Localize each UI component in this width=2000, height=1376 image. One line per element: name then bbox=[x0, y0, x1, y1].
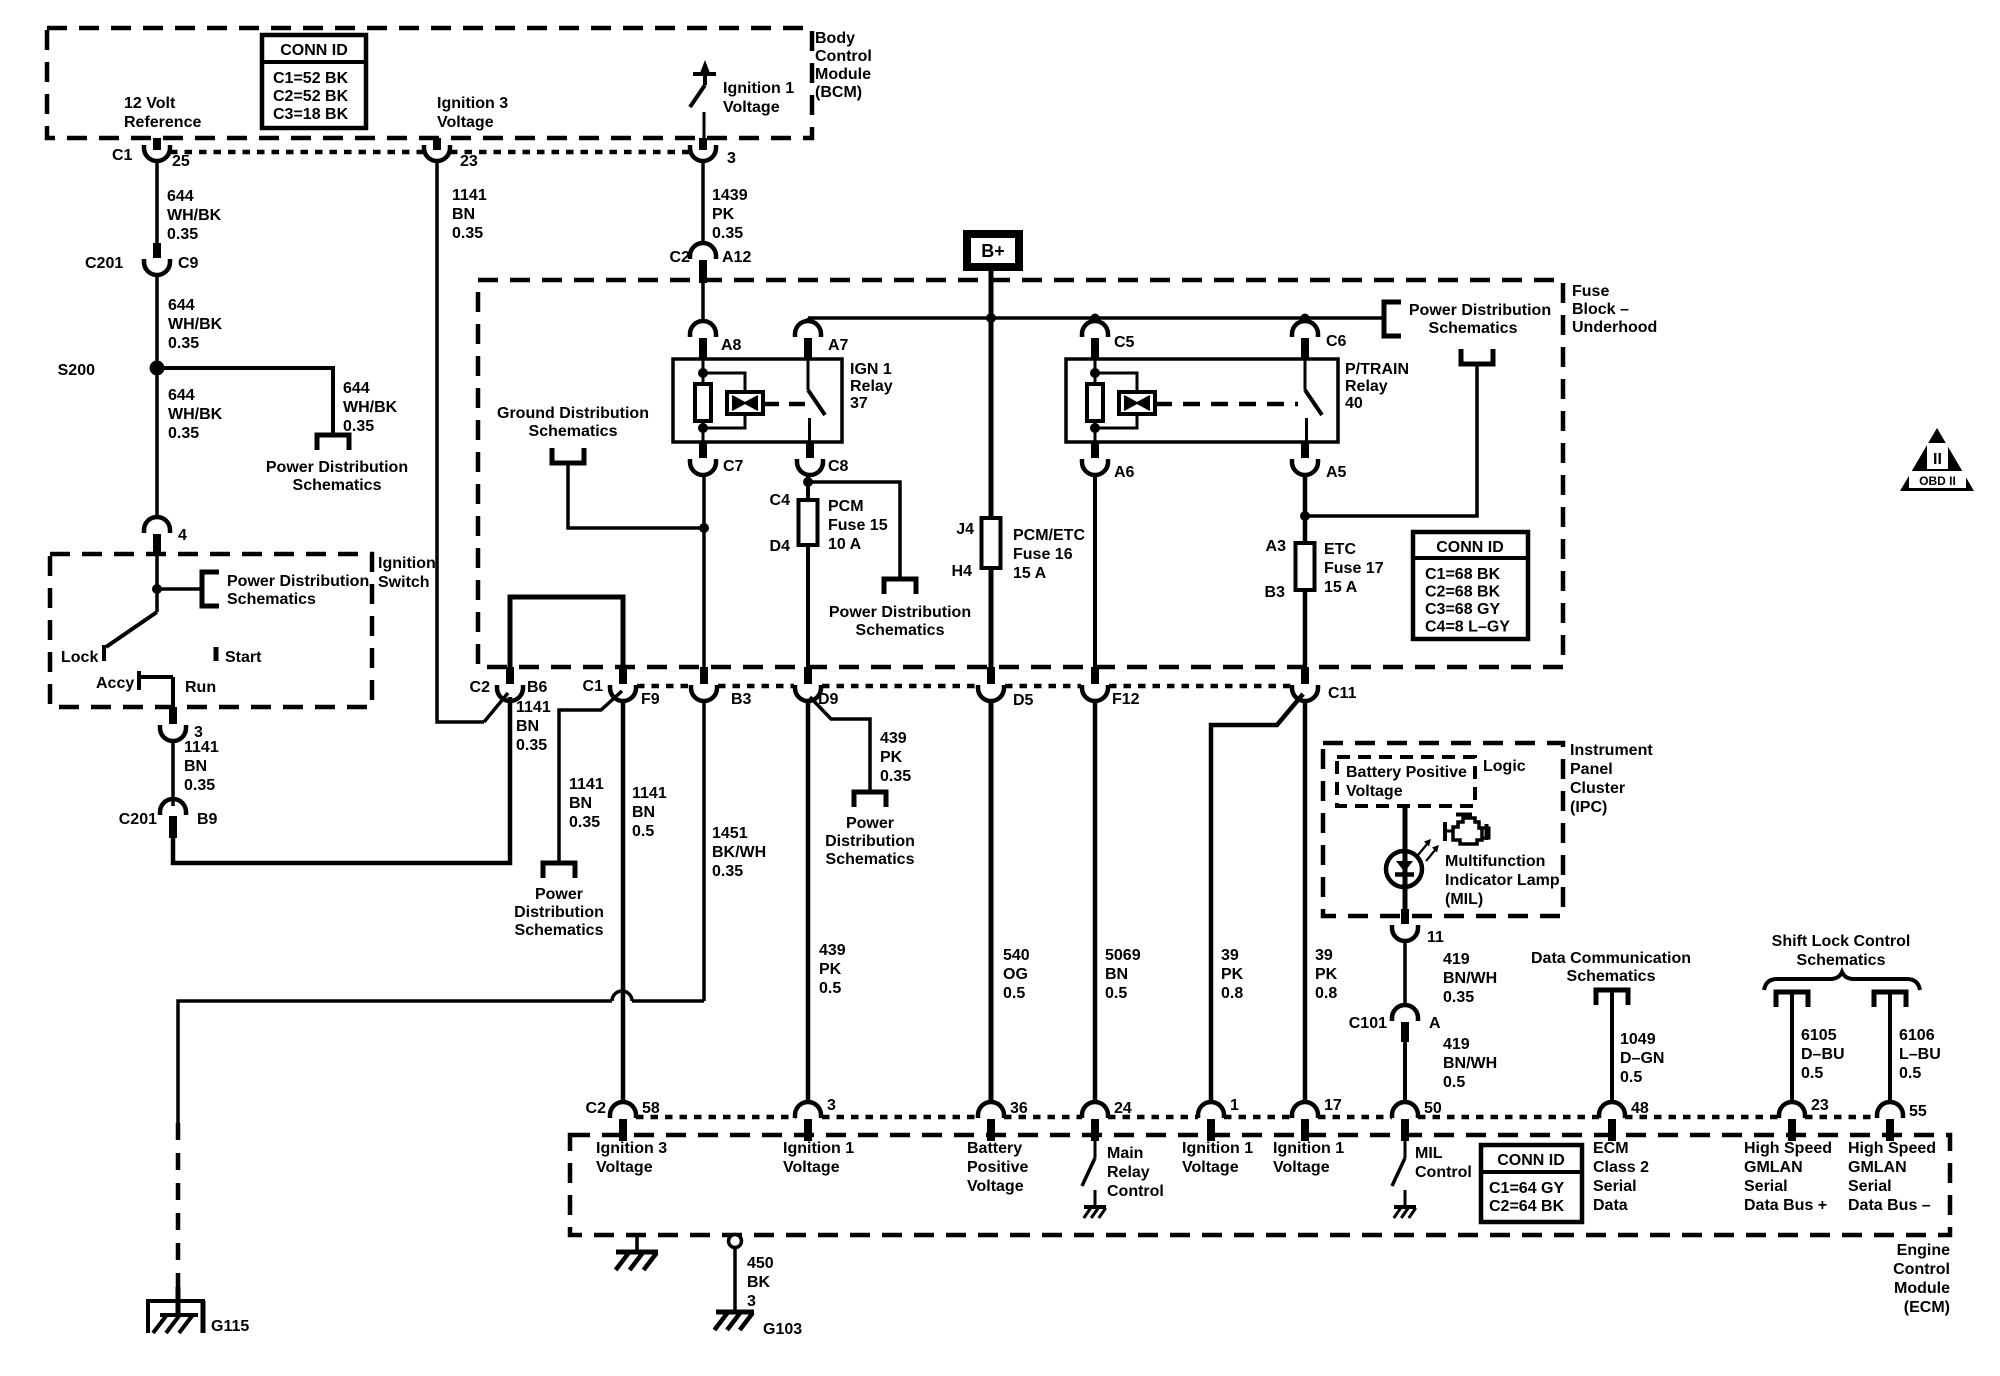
wire bridge B6 to F9 bbox=[510, 597, 623, 667]
relay switch (IGN 1) bbox=[807, 359, 810, 390]
svg-text:439: 439 bbox=[880, 730, 907, 747]
svg-text:1141: 1141 bbox=[184, 739, 219, 756]
svg-text:37: 37 bbox=[850, 395, 868, 412]
wire F9 diagonal branch bbox=[559, 691, 622, 861]
connector C5 bbox=[1082, 321, 1108, 337]
wire C11 down to ECM 17 bbox=[1303, 701, 1308, 1103]
svg-text:3: 3 bbox=[747, 1293, 756, 1310]
wire 419 BN/WH 0.5 bbox=[1403, 1042, 1407, 1103]
module box Ignition Switch bbox=[50, 554, 372, 707]
svg-text:Power Distribution: Power Distribution bbox=[1409, 302, 1551, 319]
svg-text:Schematics: Schematics bbox=[227, 591, 316, 608]
svg-text:10 A: 10 A bbox=[828, 536, 862, 553]
wire B6 down to y863 bbox=[508, 701, 512, 863]
svg-text:Underhood: Underhood bbox=[1572, 319, 1657, 336]
svg-text:39: 39 bbox=[1315, 947, 1333, 964]
svg-text:Ignition 1: Ignition 1 bbox=[1273, 1140, 1344, 1157]
connector 23 (BCM) bbox=[433, 138, 441, 150]
svg-text:39: 39 bbox=[1221, 947, 1239, 964]
svg-text:23: 23 bbox=[460, 153, 478, 170]
module box Body Control Module (BCM) bbox=[47, 28, 812, 138]
svg-text:0.35: 0.35 bbox=[167, 226, 198, 243]
svg-text:IGN 1: IGN 1 bbox=[850, 361, 892, 378]
svg-text:C2=64 BK: C2=64 BK bbox=[1489, 1198, 1565, 1215]
svg-text:C2=52 BK: C2=52 BK bbox=[273, 88, 349, 105]
svg-text:Ignition 1: Ignition 1 bbox=[723, 80, 794, 97]
svg-text:0.35: 0.35 bbox=[712, 225, 743, 242]
svg-text:C1=68 BK: C1=68 BK bbox=[1425, 566, 1501, 583]
svg-text:D5: D5 bbox=[1013, 692, 1034, 709]
svg-text:Distribution: Distribution bbox=[514, 904, 604, 921]
wire 6106 L-BU to ECM 55 bbox=[1888, 992, 1892, 1103]
svg-text:S200: S200 bbox=[58, 362, 95, 379]
module box Battery Positive Voltage (dashed) bbox=[1337, 757, 1475, 806]
svg-text:Battery: Battery bbox=[967, 1140, 1022, 1157]
wire C8 down bbox=[806, 475, 810, 500]
svg-text:(BCM): (BCM) bbox=[815, 84, 862, 101]
offpage bracket Power Distribution Schematics (F9) bbox=[543, 863, 575, 878]
svg-text:G103: G103 bbox=[763, 1321, 802, 1338]
svg-text:644: 644 bbox=[343, 380, 370, 397]
connector A7 bbox=[795, 321, 821, 337]
svg-text:PK: PK bbox=[1315, 966, 1338, 983]
svg-text:644: 644 bbox=[168, 387, 195, 404]
icon check engine (MIL) bbox=[1453, 818, 1482, 844]
node junction A5 branch bbox=[1300, 511, 1310, 521]
svg-text:1141: 1141 bbox=[452, 187, 487, 204]
svg-text:Power: Power bbox=[535, 886, 583, 903]
symbol OBD II bbox=[1900, 428, 1974, 491]
offpage bracket Power Distribution Schematics (S200) bbox=[317, 435, 349, 450]
offpage bracket Data Communication Schematics bbox=[1596, 990, 1628, 1005]
svg-text:A: A bbox=[1429, 1015, 1441, 1032]
svg-text:D4: D4 bbox=[770, 538, 791, 555]
connid box ECM CONN ID bbox=[1481, 1145, 1582, 1222]
svg-text:Fuse 15: Fuse 15 bbox=[828, 517, 888, 534]
svg-text:Control: Control bbox=[1107, 1183, 1164, 1200]
wire fuse 16 to D5 bbox=[989, 568, 994, 667]
svg-text:Schematics: Schematics bbox=[1429, 320, 1518, 337]
wire D9 down to ECM 3 (439 PK 0.5) bbox=[806, 701, 811, 1103]
svg-text:BN: BN bbox=[452, 206, 475, 223]
svg-text:0.35: 0.35 bbox=[880, 768, 911, 785]
svg-text:Control: Control bbox=[815, 48, 872, 65]
svg-text:BK/WH: BK/WH bbox=[712, 844, 766, 861]
svg-text:Schematics: Schematics bbox=[856, 622, 945, 639]
svg-text:B9: B9 bbox=[197, 811, 218, 828]
power feed B+ bbox=[963, 230, 1023, 271]
connector ECM pin 36 bbox=[978, 1102, 1004, 1118]
svg-text:F9: F9 bbox=[641, 691, 660, 708]
svg-text:Schematics: Schematics bbox=[1797, 952, 1886, 969]
svg-text:Module: Module bbox=[1894, 1280, 1950, 1297]
wire fuse 17 to C11 bbox=[1303, 590, 1308, 667]
svg-text:Fuse 16: Fuse 16 bbox=[1013, 546, 1073, 563]
connector ECM pin 24 bbox=[1082, 1102, 1108, 1118]
wire 419 BN/WH 0.35 bbox=[1403, 941, 1407, 1006]
connector C201 pin C9 bbox=[153, 243, 161, 258]
node bus at B+ bbox=[986, 313, 996, 323]
svg-text:1141: 1141 bbox=[632, 785, 667, 802]
svg-text:High Speed: High Speed bbox=[1848, 1140, 1936, 1157]
wire fuse 15 to D9 bbox=[806, 545, 810, 667]
svg-text:Voltage: Voltage bbox=[783, 1159, 840, 1176]
svg-text:C1=64 GY: C1=64 GY bbox=[1489, 1180, 1564, 1197]
svg-text:Relay: Relay bbox=[1345, 378, 1388, 395]
connector ECM pin 23 bbox=[1779, 1102, 1805, 1118]
light arrows (LED) bbox=[1418, 843, 1428, 855]
svg-text:CONN ID: CONN ID bbox=[280, 42, 348, 59]
svg-text:Indicator Lamp: Indicator Lamp bbox=[1445, 872, 1560, 889]
node bus at C6 bbox=[1301, 314, 1310, 323]
switch MIL Control (ECM internal) bbox=[1404, 1141, 1407, 1158]
svg-text:Battery Positive: Battery Positive bbox=[1346, 764, 1467, 781]
svg-text:Relay: Relay bbox=[1107, 1164, 1150, 1181]
module box Engine Control Module (ECM) bbox=[570, 1135, 1950, 1235]
svg-text:Switch: Switch bbox=[378, 574, 430, 591]
svg-text:Control: Control bbox=[1415, 1164, 1472, 1181]
svg-text:C201: C201 bbox=[85, 255, 123, 272]
svg-text:BN/WH: BN/WH bbox=[1443, 970, 1497, 987]
svg-text:1451: 1451 bbox=[712, 825, 748, 842]
svg-text:Data Bus –: Data Bus – bbox=[1848, 1197, 1931, 1214]
wire C11 diagonal branch to ECM 1 bbox=[1211, 694, 1303, 1103]
svg-text:0.5: 0.5 bbox=[819, 980, 841, 997]
offpage bracket Power Distribution Schematics (ignition switch) bbox=[202, 572, 219, 606]
connector ECM pin 3 bbox=[795, 1102, 821, 1118]
wire D5 down to ECM 36 (540 OG) bbox=[989, 701, 994, 1103]
svg-text:A7: A7 bbox=[828, 337, 849, 354]
node junction (ignition switch) bbox=[152, 584, 162, 594]
svg-text:439: 439 bbox=[819, 942, 846, 959]
svg-text:C2: C2 bbox=[470, 679, 491, 696]
svg-text:PK: PK bbox=[880, 749, 903, 766]
node G103 splice on ECM box bbox=[729, 1235, 742, 1248]
svg-text:11: 11 bbox=[1427, 929, 1444, 946]
wire ground distribution to C7 wire bbox=[568, 463, 704, 528]
svg-text:A3: A3 bbox=[1266, 538, 1287, 555]
wire hop over F9 wire bbox=[612, 991, 632, 1001]
connector C2 pin A12 bbox=[690, 243, 716, 259]
svg-text:Voltage: Voltage bbox=[1273, 1159, 1330, 1176]
connector ECM pin 48 bbox=[1599, 1102, 1625, 1118]
svg-text:Data: Data bbox=[1593, 1197, 1628, 1214]
node bus at C5 bbox=[1091, 314, 1100, 323]
svg-text:C4: C4 bbox=[770, 492, 791, 509]
svg-text:P/TRAIN: P/TRAIN bbox=[1345, 361, 1409, 378]
connid box BCM CONN ID bbox=[262, 35, 366, 128]
svg-text:Block –: Block – bbox=[1572, 301, 1629, 318]
wire diagonal into connector B6 bbox=[484, 693, 508, 722]
svg-text:17: 17 bbox=[1324, 1097, 1342, 1114]
svg-text:Voltage: Voltage bbox=[967, 1178, 1024, 1195]
node S200 bbox=[150, 361, 165, 376]
connid box Fuse Block CONN ID bbox=[1413, 532, 1528, 639]
svg-text:6106: 6106 bbox=[1899, 1027, 1935, 1044]
svg-text:1141: 1141 bbox=[516, 699, 551, 716]
wire 1141 BN from pin 23 bbox=[437, 161, 484, 722]
fuse ETC Fuse 17 15 A bbox=[1296, 543, 1315, 590]
svg-text:Panel: Panel bbox=[1570, 761, 1613, 778]
svg-text:II: II bbox=[1933, 451, 1942, 468]
svg-text:644: 644 bbox=[168, 297, 195, 314]
svg-text:Data Bus +: Data Bus + bbox=[1744, 1197, 1827, 1214]
svg-text:50: 50 bbox=[1424, 1100, 1442, 1117]
svg-text:Reference: Reference bbox=[124, 114, 201, 131]
svg-text:Main: Main bbox=[1107, 1145, 1143, 1162]
wire A5 down bbox=[1303, 475, 1308, 543]
wire into switch junction bbox=[155, 556, 159, 612]
contact Start bbox=[214, 647, 219, 661]
connector A6 bbox=[1091, 442, 1099, 458]
wire 1141 to C201 B9 bbox=[171, 741, 175, 806]
svg-text:G115: G115 bbox=[211, 1318, 249, 1335]
offpage bracket Power Distribution Schematics (ETC) bbox=[1461, 349, 1493, 364]
wire B3 to G115 (1451 BK/WH) bbox=[702, 701, 706, 1001]
svg-text:Voltage: Voltage bbox=[596, 1159, 653, 1176]
connector C1 pin F9 bbox=[619, 667, 627, 684]
svg-text:0.5: 0.5 bbox=[1443, 1074, 1465, 1091]
svg-text:0.8: 0.8 bbox=[1315, 985, 1337, 1002]
svg-text:BK: BK bbox=[747, 1274, 771, 1291]
svg-text:Power: Power bbox=[846, 815, 894, 832]
svg-text:Module: Module bbox=[815, 66, 871, 83]
svg-text:WH/BK: WH/BK bbox=[168, 406, 223, 423]
node junction C7/ground-dist bbox=[699, 523, 709, 533]
svg-text:A8: A8 bbox=[721, 337, 742, 354]
svg-text:ETC: ETC bbox=[1324, 541, 1356, 558]
svg-text:1: 1 bbox=[1230, 1097, 1239, 1114]
wire 1439 PK bbox=[701, 161, 705, 243]
svg-text:Serial: Serial bbox=[1744, 1178, 1788, 1195]
svg-text:1049: 1049 bbox=[1620, 1031, 1656, 1048]
ground G115 bbox=[146, 1301, 150, 1333]
offpage bracket Power Distribution Schematics (bus) bbox=[1384, 302, 1401, 336]
svg-text:D–GN: D–GN bbox=[1620, 1050, 1664, 1067]
connector C201 pin B9 bbox=[160, 799, 186, 815]
connector C11 bbox=[1301, 667, 1309, 684]
connector B3 (fuse block) bbox=[700, 667, 708, 684]
ground G103 bbox=[716, 1310, 754, 1315]
svg-text:PK: PK bbox=[1221, 966, 1244, 983]
svg-text:A6: A6 bbox=[1114, 464, 1135, 481]
svg-text:55: 55 bbox=[1909, 1103, 1927, 1120]
svg-text:12 Volt: 12 Volt bbox=[124, 95, 176, 112]
wire 6105 D-BU to ECM 23 bbox=[1790, 992, 1794, 1103]
svg-text:Voltage: Voltage bbox=[1346, 783, 1403, 800]
svg-text:0.5: 0.5 bbox=[1801, 1065, 1823, 1082]
wire 644 C1 to C201 bbox=[155, 161, 159, 243]
svg-text:0.35: 0.35 bbox=[1443, 989, 1474, 1006]
svg-text:Ignition: Ignition bbox=[378, 555, 436, 572]
svg-text:B+: B+ bbox=[981, 241, 1005, 261]
connector ECM pin 55 bbox=[1877, 1102, 1903, 1118]
connector row BCM (dotted) bbox=[170, 150, 424, 155]
svg-text:Serial: Serial bbox=[1848, 1178, 1892, 1195]
offpage bracket shift lock left bbox=[1776, 992, 1808, 1007]
svg-text:Voltage: Voltage bbox=[1182, 1159, 1239, 1176]
svg-text:Engine: Engine bbox=[1897, 1242, 1950, 1259]
svg-text:0.5: 0.5 bbox=[1105, 985, 1127, 1002]
relay switch (P/TRAIN) bbox=[1304, 359, 1307, 390]
wire Run contact down bbox=[171, 677, 175, 707]
connector C101 pin A bbox=[1392, 1005, 1418, 1021]
wire bus drop to A7 bbox=[806, 318, 810, 323]
svg-text:PCM: PCM bbox=[828, 498, 864, 515]
svg-text:(IPC): (IPC) bbox=[1570, 799, 1607, 816]
ground ECM case bbox=[635, 1235, 639, 1252]
wire bus drop to C6 bbox=[1303, 318, 1307, 323]
svg-text:23: 23 bbox=[1811, 1097, 1829, 1114]
connector row ECM (dotted) bbox=[636, 1115, 796, 1120]
svg-text:(ECM): (ECM) bbox=[1904, 1299, 1950, 1316]
svg-text:GMLAN: GMLAN bbox=[1848, 1159, 1907, 1176]
svg-text:Ignition 3: Ignition 3 bbox=[596, 1140, 667, 1157]
brace shift lock bbox=[1764, 972, 1920, 990]
svg-text:BN: BN bbox=[569, 795, 592, 812]
fuse PCM Fuse 15 10 A bbox=[806, 500, 810, 545]
svg-text:0.5: 0.5 bbox=[1899, 1065, 1921, 1082]
svg-text:CONN ID: CONN ID bbox=[1497, 1152, 1565, 1169]
connector ECM pin 50 bbox=[1392, 1102, 1418, 1118]
svg-text:Fuse: Fuse bbox=[1572, 283, 1609, 300]
svg-text:C5: C5 bbox=[1114, 334, 1135, 351]
svg-text:B6: B6 bbox=[527, 679, 548, 696]
connector 4 (ignition switch) bbox=[144, 517, 170, 533]
connector ECM pin 58 bbox=[610, 1102, 636, 1118]
svg-text:Schematics: Schematics bbox=[529, 423, 618, 440]
node junction C8 branch bbox=[803, 477, 813, 487]
svg-text:Ignition 1: Ignition 1 bbox=[1182, 1140, 1253, 1157]
svg-text:Power Distribution: Power Distribution bbox=[829, 604, 971, 621]
svg-text:0.5: 0.5 bbox=[1003, 985, 1025, 1002]
svg-text:WH/BK: WH/BK bbox=[167, 207, 222, 224]
svg-text:15 A: 15 A bbox=[1324, 579, 1358, 596]
svg-text:D9: D9 bbox=[818, 691, 839, 708]
svg-text:MIL: MIL bbox=[1415, 1145, 1443, 1162]
svg-text:C1: C1 bbox=[583, 678, 604, 695]
offpage bracket Power Distribution Schematics (PCM fuse) bbox=[884, 579, 916, 594]
svg-text:PK: PK bbox=[819, 961, 842, 978]
connector C1 pin 25 bbox=[153, 138, 161, 150]
connector C8 bbox=[806, 442, 814, 458]
svg-text:0.35: 0.35 bbox=[184, 777, 215, 794]
svg-text:48: 48 bbox=[1631, 1100, 1649, 1117]
offpage bracket shift lock right bbox=[1874, 992, 1906, 1007]
connector ECM pin 1 bbox=[1198, 1102, 1224, 1118]
svg-text:BN: BN bbox=[1105, 966, 1128, 983]
wire C8 branch to power distribution bbox=[808, 482, 900, 577]
switch Main Relay Control (ECM internal) bbox=[1094, 1141, 1097, 1158]
svg-text:24: 24 bbox=[1114, 1100, 1132, 1117]
lamp MIL LED symbol bbox=[1386, 851, 1422, 887]
svg-text:A12: A12 bbox=[722, 249, 751, 266]
svg-text:ECM: ECM bbox=[1593, 1140, 1629, 1157]
svg-text:1141: 1141 bbox=[569, 776, 604, 793]
connector 3 (BCM) bbox=[699, 138, 707, 150]
svg-text:Power Distribution: Power Distribution bbox=[266, 459, 408, 476]
svg-text:58: 58 bbox=[642, 1100, 660, 1117]
svg-text:BN: BN bbox=[184, 758, 207, 775]
svg-text:J4: J4 bbox=[956, 521, 974, 538]
svg-text:0.5: 0.5 bbox=[632, 823, 654, 840]
svg-text:(MIL): (MIL) bbox=[1445, 891, 1483, 908]
svg-text:0.35: 0.35 bbox=[712, 863, 743, 880]
svg-text:F12: F12 bbox=[1112, 691, 1140, 708]
svg-text:B3: B3 bbox=[1265, 584, 1286, 601]
svg-text:Ignition 3: Ignition 3 bbox=[437, 95, 508, 112]
svg-text:40: 40 bbox=[1345, 395, 1363, 412]
svg-text:36: 36 bbox=[1010, 1100, 1028, 1117]
svg-text:Fuse 17: Fuse 17 bbox=[1324, 560, 1384, 577]
connector 3 (ignition switch) bbox=[169, 707, 177, 724]
svg-text:1439: 1439 bbox=[712, 187, 748, 204]
svg-text:Serial: Serial bbox=[1593, 1178, 1637, 1195]
wire bus drop to C5 bbox=[1093, 318, 1097, 323]
svg-text:B3: B3 bbox=[731, 691, 752, 708]
connector D5 bbox=[987, 667, 995, 684]
relay IGN 1 Relay 37 box bbox=[673, 359, 842, 442]
svg-text:Accy: Accy bbox=[96, 675, 134, 692]
svg-text:BN/WH: BN/WH bbox=[1443, 1055, 1497, 1072]
svg-text:25: 25 bbox=[172, 153, 190, 170]
svg-text:High Speed: High Speed bbox=[1744, 1140, 1832, 1157]
offpage bracket Power Distribution Schematics (D9) bbox=[854, 792, 886, 807]
svg-text:WH/BK: WH/BK bbox=[168, 316, 223, 333]
svg-text:0.5: 0.5 bbox=[1620, 1069, 1642, 1086]
svg-text:C6: C6 bbox=[1326, 333, 1347, 350]
svg-text:WH/BK: WH/BK bbox=[343, 399, 398, 416]
relay P/TRAIN Relay 40 box bbox=[1066, 359, 1338, 442]
wire F9 down to ECM 58 (1141 BN 0.5) bbox=[621, 701, 626, 1103]
wire B+ down to fuse 16 bbox=[989, 318, 994, 518]
wire C7 down to B3 bbox=[702, 475, 706, 667]
wire A6 down to F12 bbox=[1093, 475, 1097, 667]
svg-text:540: 540 bbox=[1003, 947, 1030, 964]
relay coil (P/TRAIN) bbox=[1094, 359, 1097, 373]
switch arm Lock bbox=[106, 612, 157, 647]
svg-text:Run: Run bbox=[185, 679, 216, 696]
svg-text:Data Communication: Data Communication bbox=[1531, 950, 1691, 967]
wire 644 C201 to S200 bbox=[155, 275, 159, 363]
connector C7 bbox=[699, 442, 707, 458]
relay actuator dashes (IGN 1) bbox=[763, 402, 806, 407]
svg-text:Voltage: Voltage bbox=[437, 114, 494, 131]
wire A5 branch to power distribution bracket bbox=[1305, 364, 1477, 516]
wire 450 BK to G103 bbox=[733, 1247, 737, 1312]
svg-text:C11: C11 bbox=[1328, 685, 1357, 702]
wire bus from B+ bbox=[808, 316, 1384, 320]
svg-text:Shift Lock Control: Shift Lock Control bbox=[1772, 933, 1911, 950]
connector 11 (IPC) bbox=[1401, 909, 1409, 924]
svg-text:419: 419 bbox=[1443, 1036, 1470, 1053]
svg-text:15 A: 15 A bbox=[1013, 565, 1047, 582]
svg-text:C8: C8 bbox=[828, 458, 849, 475]
svg-text:Control: Control bbox=[1893, 1261, 1950, 1278]
svg-text:C3=18 BK: C3=18 BK bbox=[273, 106, 349, 123]
svg-text:OBD II: OBD II bbox=[1919, 474, 1956, 488]
svg-text:419: 419 bbox=[1443, 951, 1470, 968]
svg-text:CONN ID: CONN ID bbox=[1436, 539, 1504, 556]
svg-text:5069: 5069 bbox=[1105, 947, 1141, 964]
svg-text:Power Distribution: Power Distribution bbox=[227, 573, 369, 590]
svg-text:C4=8 L–GY: C4=8 L–GY bbox=[1425, 619, 1510, 636]
wire 1049 D-GN to ECM 48 bbox=[1610, 990, 1614, 1103]
wire A12 to A8 bbox=[701, 283, 705, 322]
svg-text:PCM/ETC: PCM/ETC bbox=[1013, 527, 1085, 544]
relay actuator dashes (P/TRAIN) bbox=[1155, 402, 1298, 407]
svg-text:Instrument: Instrument bbox=[1570, 742, 1653, 759]
